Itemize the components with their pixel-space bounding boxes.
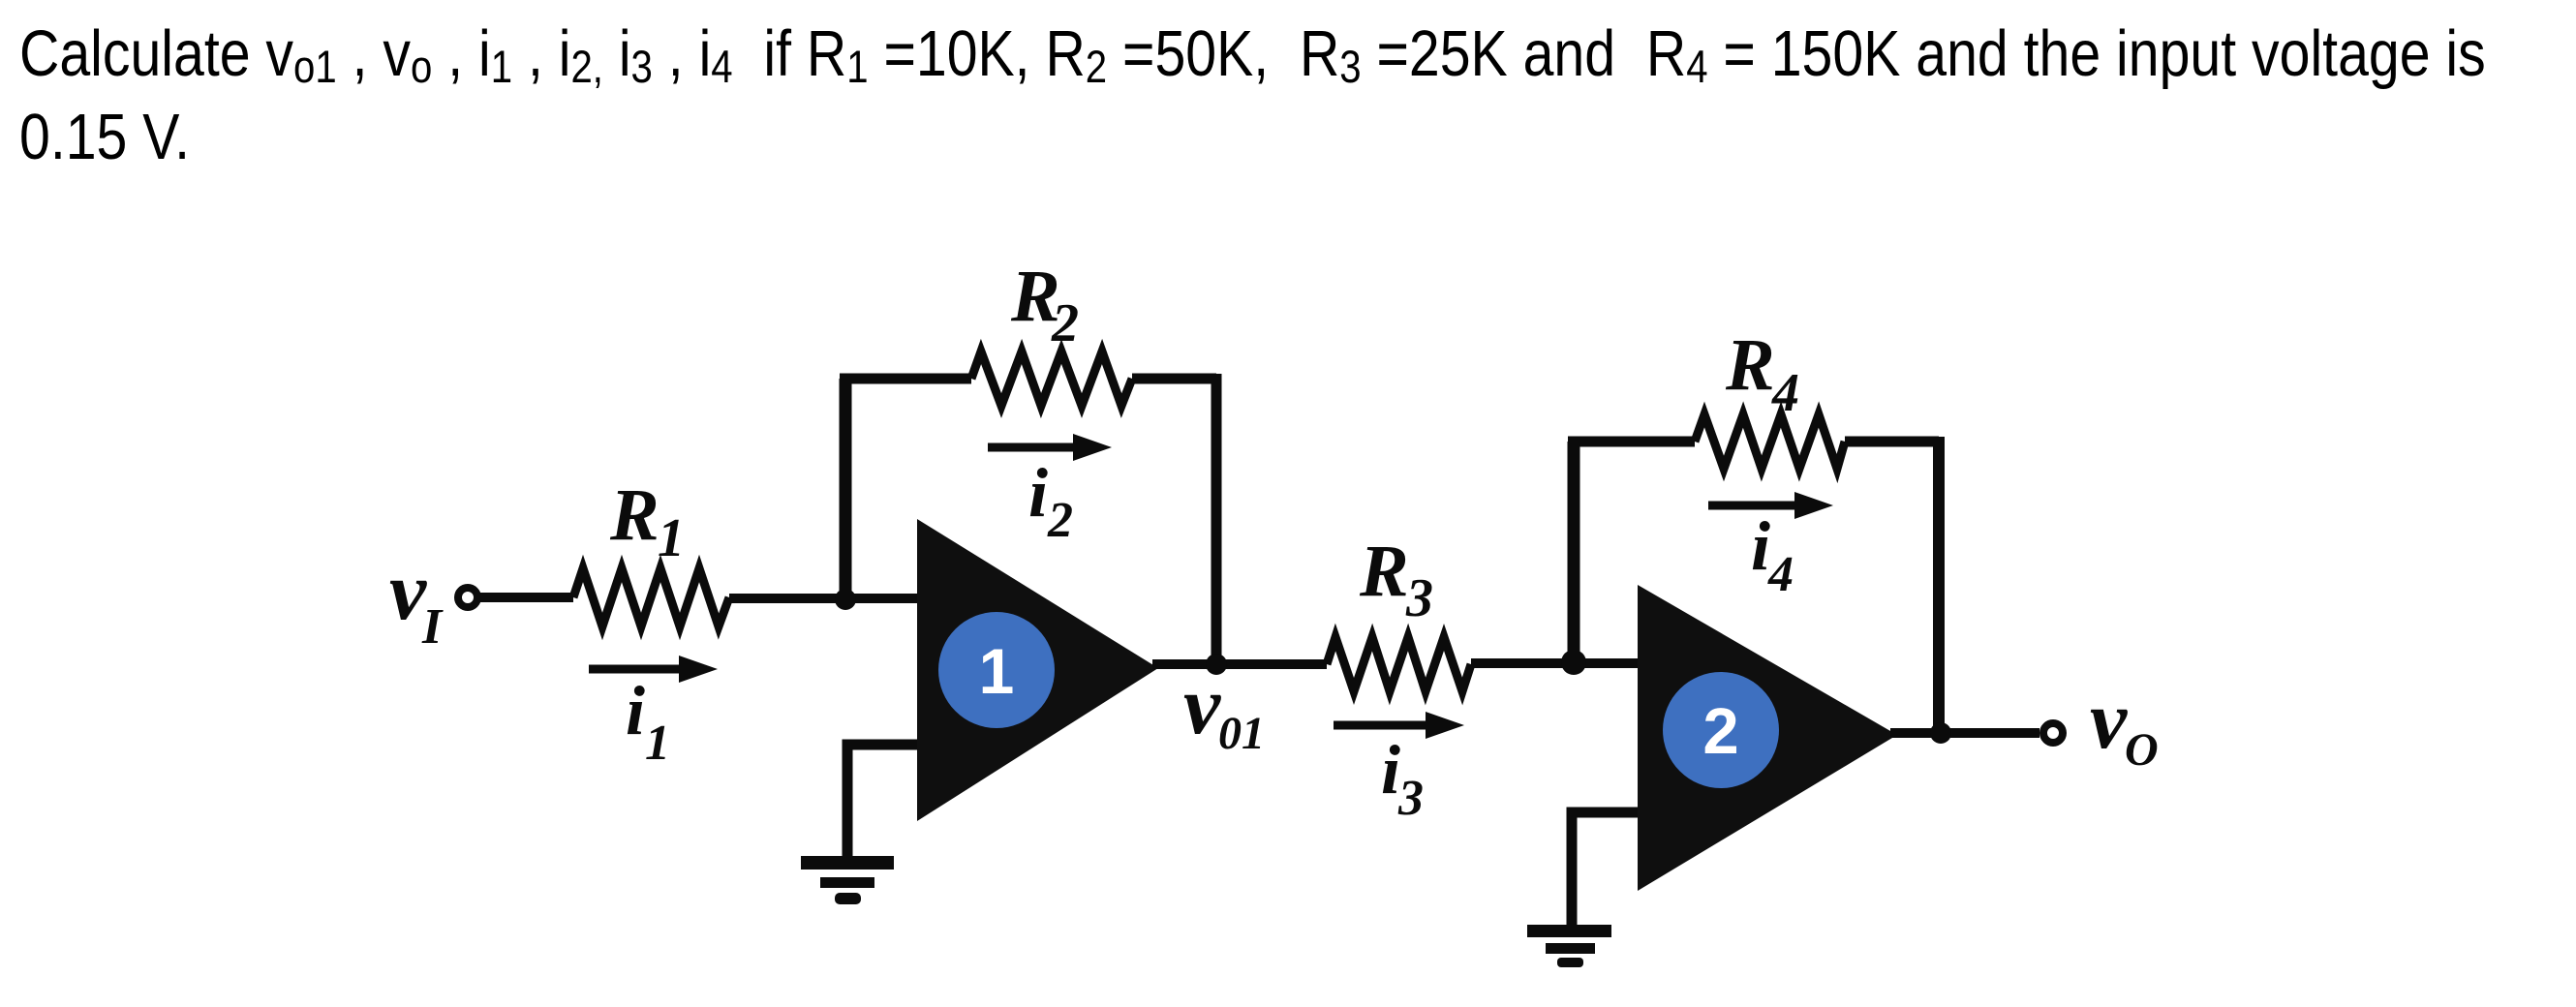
wire R1 to op-amp U1 input [729, 594, 917, 603]
svg-text:R: R [609, 474, 659, 556]
svg-text:1: 1 [979, 635, 1015, 707]
wire feedback2 right vertical [1933, 437, 1945, 733]
wire R3 to node B [1471, 658, 1638, 668]
node B inverting input junction [1561, 650, 1586, 675]
svg-text:2: 2 [1051, 293, 1079, 353]
label vo [2090, 673, 2159, 776]
svg-text:3: 3 [1397, 771, 1424, 826]
op-amp U1 [917, 519, 1158, 821]
svg-text:4: 4 [1771, 363, 1799, 423]
ground G2 [1527, 925, 1611, 967]
wire non-inverting U1 [847, 745, 917, 861]
wire feedback1 top left [840, 374, 971, 384]
op-amp U2 badge 2 [1663, 672, 1779, 788]
resistor R3 [1327, 637, 1471, 691]
wire feedback2 top left [1568, 437, 1695, 447]
svg-text:4: 4 [1767, 547, 1794, 602]
wire U1 output to R3 [1152, 659, 1327, 669]
arrow i2 [988, 434, 1112, 461]
label R3 [1359, 531, 1433, 628]
svg-text:1: 1 [645, 716, 670, 771]
resistor R2 [971, 351, 1132, 406]
op-amp U1 badge 1 [938, 612, 1055, 728]
svg-text:i: i [1381, 731, 1400, 809]
arrow i4 [1708, 492, 1833, 519]
label R1 [609, 474, 685, 568]
label vI [389, 544, 444, 655]
label i3 [1381, 731, 1424, 826]
label i1 [626, 672, 670, 771]
label i4 [1751, 507, 1794, 602]
op-amp U2 [1638, 585, 1897, 891]
wire feedback1 left vertical [840, 379, 852, 599]
svg-text:O: O [2125, 724, 2159, 776]
output terminal vo [2043, 723, 2063, 743]
svg-text:2: 2 [1047, 493, 1073, 548]
svg-text:I: I [421, 599, 444, 655]
arrow i3 [1334, 712, 1464, 739]
svg-text:2: 2 [1702, 695, 1738, 768]
svg-text:i: i [1751, 507, 1770, 585]
label R2 [1010, 256, 1079, 353]
label R4 [1725, 324, 1799, 423]
ground G1 [801, 856, 894, 904]
input terminal vI [458, 588, 477, 607]
svg-text:R: R [1359, 531, 1409, 612]
svg-text:v: v [1183, 658, 1221, 751]
node output junction [1930, 722, 1951, 744]
wire feedback2 left vertical [1568, 442, 1580, 662]
node A inverting input junction [835, 589, 856, 610]
svg-text:R: R [1725, 324, 1775, 406]
wire U2 output to terminal [1890, 728, 2039, 738]
svg-text:i: i [1028, 454, 1048, 532]
question text [19, 13, 2500, 179]
wire feedback2 top right [1845, 437, 1939, 447]
svg-text:i: i [626, 672, 645, 749]
resistor R4 [1695, 414, 1845, 469]
wire non-inverting U2 [1572, 812, 1638, 928]
svg-text:1: 1 [658, 508, 685, 568]
label v01 [1183, 658, 1265, 759]
wire feedback1 top right [1132, 374, 1216, 384]
svg-text:01: 01 [1218, 708, 1265, 759]
label i2 [1028, 454, 1073, 548]
wire input to R1 [480, 593, 573, 602]
arrow i1 [589, 656, 718, 683]
svg-text:v: v [2090, 673, 2128, 766]
svg-text:3: 3 [1405, 568, 1433, 628]
wire feedback1 right vertical [1211, 374, 1222, 664]
node v01 junction [1206, 654, 1227, 675]
resistor R1 [573, 568, 729, 626]
